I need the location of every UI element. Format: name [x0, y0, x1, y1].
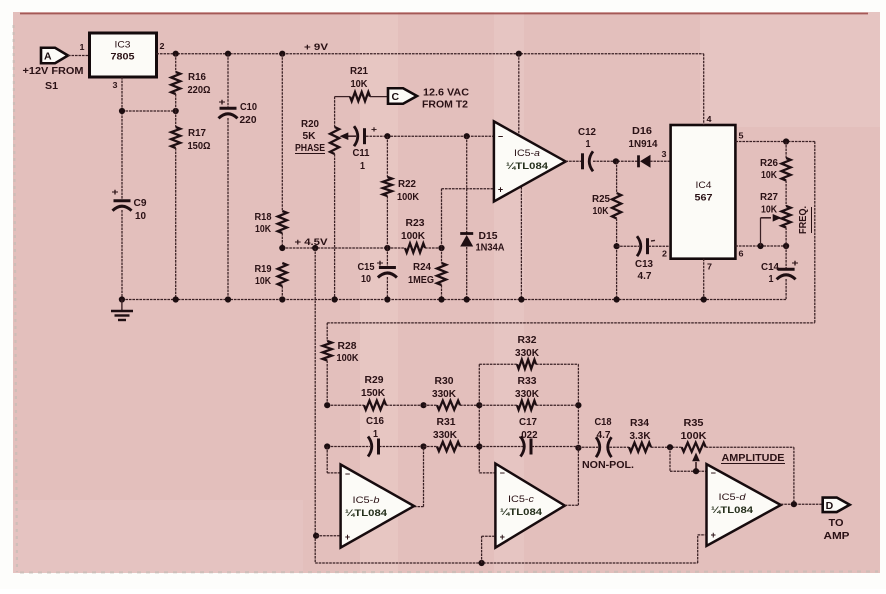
resistor R34 — [629, 443, 651, 452]
svg-text:NON-POL.: NON-POL. — [582, 460, 634, 471]
svg-text:¼TL084: ¼TL084 — [506, 161, 549, 172]
svg-text:+: + — [345, 532, 350, 542]
svg-text:1: 1 — [373, 429, 378, 440]
svg-text:R19: R19 — [255, 264, 272, 275]
svg-text:R33: R33 — [518, 376, 537, 387]
wire R34 junction to IC5-d inverting input — [669, 447, 671, 471]
svg-text:C16: C16 — [366, 416, 384, 427]
svg-text:FROM T2: FROM T2 — [422, 99, 468, 111]
svg-text:1: 1 — [360, 161, 365, 172]
diode D15 1N34A — [466, 136, 468, 233]
wire IC3 pin3 down — [121, 77, 123, 200]
wire lower feedback top rail — [327, 322, 815, 324]
svg-text:10K: 10K — [255, 276, 272, 287]
pin 7 wire — [703, 259, 705, 300]
svg-text:R18: R18 — [255, 212, 272, 223]
node D output arrow TO AMP — [823, 498, 850, 513]
wire bottom noninverting rail — [315, 562, 698, 564]
svg-text:D15: D15 — [479, 231, 498, 242]
svg-text:3.3K: 3.3K — [630, 431, 652, 442]
potentiometer R35 100K AMPLITUDE — [682, 443, 706, 452]
wire C12 to D16 — [593, 160, 638, 162]
wire C11 to IC5-a inverting input — [366, 135, 494, 137]
resistor R32 — [517, 360, 536, 369]
svg-text:+: + — [371, 125, 377, 134]
svg-text:C: C — [391, 91, 399, 103]
resistor R18 — [281, 54, 283, 211]
svg-text:IC5-a: IC5-a — [514, 148, 540, 159]
svg-text:R20: R20 — [301, 119, 319, 130]
svg-text:6: 6 — [739, 249, 744, 259]
wire R29 row — [327, 404, 364, 406]
capacitor C11 — [354, 126, 358, 146]
wire +4.5V drop to bottom rail — [314, 248, 316, 563]
svg-text:IC3: IC3 — [115, 40, 131, 51]
svg-text:S1: S1 — [45, 81, 58, 92]
svg-text:¼TL084: ¼TL084 — [500, 507, 543, 518]
svg-text:2: 2 — [662, 249, 667, 259]
resistor R30 — [424, 404, 438, 406]
inner loop R32 row — [479, 363, 517, 365]
svg-text:C9: C9 — [134, 198, 147, 209]
svg-text:R17: R17 — [188, 128, 206, 139]
svg-text:C15: C15 — [358, 262, 375, 273]
svg-text:R26: R26 — [760, 158, 778, 169]
wire IC5-c output stub — [565, 504, 579, 506]
svg-text:IC4: IC4 — [696, 180, 712, 191]
svg-text:R30: R30 — [435, 376, 454, 387]
svg-text:330K: 330K — [515, 389, 540, 400]
wire link pin3 to R16/R17 junction — [122, 110, 176, 112]
pin 6 wire — [735, 245, 786, 247]
svg-text:567: 567 — [695, 193, 713, 204]
regulator IC3 7805 — [90, 33, 157, 77]
tone decoder IC4 567 — [671, 125, 736, 259]
node A input arrow — [41, 48, 68, 64]
svg-text:+: + — [219, 97, 226, 107]
capacitor C18 NON-POL — [578, 446, 598, 448]
resistor R26 — [785, 142, 787, 159]
svg-text:FREQ.: FREQ. — [798, 206, 809, 234]
svg-text:C10: C10 — [240, 102, 257, 113]
svg-text:100K: 100K — [397, 192, 420, 203]
svg-text:R35: R35 — [684, 418, 704, 429]
svg-text:D16: D16 — [632, 126, 652, 137]
svg-text:1MEG: 1MEG — [408, 275, 434, 286]
svg-text:4.7: 4.7 — [597, 430, 611, 441]
svg-text:+: + — [792, 258, 799, 268]
resistor R17 — [175, 111, 177, 127]
svg-text:¼TL084: ¼TL084 — [711, 505, 754, 516]
wire IC5-d + stub — [697, 535, 699, 563]
svg-text:R29: R29 — [365, 375, 384, 386]
svg-text:C11: C11 — [353, 148, 370, 159]
svg-text:330K: 330K — [515, 348, 540, 359]
wiper arrow of R35 — [695, 462, 697, 471]
svg-text:R31: R31 — [437, 417, 456, 428]
svg-text:10K: 10K — [351, 79, 369, 90]
svg-text:+12V FROM: +12V FROM — [23, 66, 84, 77]
resistor R29 — [364, 401, 386, 410]
svg-text:−: − — [498, 132, 503, 142]
svg-text:100K: 100K — [337, 353, 360, 364]
op-amp IC5-a — [518, 54, 520, 135]
svg-text:TO: TO — [829, 518, 844, 529]
svg-text:4.7: 4.7 — [638, 271, 652, 282]
svg-text:1: 1 — [769, 274, 774, 285]
svg-text:+: + — [500, 532, 505, 542]
wire R35 right to output — [793, 447, 795, 504]
capacitor C14 — [785, 246, 787, 269]
wire +4.5V rail — [282, 247, 405, 249]
svg-text:330K: 330K — [433, 430, 458, 441]
op-amp IC5-b — [341, 465, 414, 548]
svg-text:5: 5 — [739, 131, 744, 141]
wire A to IC3 pin1 — [68, 55, 90, 57]
wiper arrow of R20 — [344, 135, 356, 137]
resistor R31 — [424, 446, 438, 448]
svg-text:10K: 10K — [593, 206, 610, 217]
svg-text:IC5-d: IC5-d — [719, 492, 747, 503]
wire +4.5V node to IC5-a noninverting input — [442, 188, 494, 190]
svg-text:−: − — [500, 468, 505, 478]
potentiometer R20 5K PHASE — [334, 97, 336, 127]
capacitor C13 — [617, 245, 639, 247]
svg-text:AMPLITUDE: AMPLITUDE — [722, 453, 785, 464]
wire IC5-b inverting stub — [326, 447, 328, 473]
svg-text:−: − — [345, 469, 350, 479]
svg-text:IC5-c: IC5-c — [508, 494, 534, 505]
svg-text:C17: C17 — [519, 417, 537, 428]
wire +9V rail — [157, 53, 704, 55]
node +9V junctions — [173, 51, 179, 57]
svg-text:R16: R16 — [188, 72, 206, 83]
pin 4 wire — [703, 54, 705, 125]
svg-text:R21: R21 — [350, 66, 368, 77]
svg-text:C18: C18 — [595, 417, 612, 428]
svg-text:C12: C12 — [578, 127, 596, 138]
diode D16 1N914 — [637, 155, 640, 167]
node C arrow 12.6 VAC FROM T2 — [388, 88, 417, 104]
svg-text:3: 3 — [113, 80, 118, 90]
capacitor C9 — [114, 199, 131, 202]
resistor R23 — [405, 243, 425, 252]
svg-text:+: + — [112, 187, 119, 197]
resistor R16 — [175, 54, 177, 72]
svg-text:+: + — [711, 530, 716, 540]
svg-text:+: + — [377, 258, 384, 268]
ground bus — [122, 299, 786, 301]
svg-text:10K: 10K — [255, 224, 272, 235]
svg-text:150K: 150K — [361, 388, 386, 399]
resistor R22 — [386, 136, 388, 177]
svg-text:.022: .022 — [519, 430, 538, 441]
svg-text:C14: C14 — [761, 262, 779, 273]
svg-text:R25: R25 — [592, 194, 610, 205]
wire right column pin5 down to lower section — [814, 142, 816, 323]
svg-text:R28: R28 — [338, 341, 357, 352]
wire IC5-d output — [781, 503, 823, 505]
wire IC5-a output — [566, 160, 581, 162]
svg-text:7805: 7805 — [111, 52, 136, 63]
svg-text:4: 4 — [707, 114, 712, 124]
svg-text:5K: 5K — [303, 131, 317, 142]
capacitor C16 — [368, 437, 372, 457]
capacitor C10 — [227, 54, 229, 108]
capacitor C15 — [386, 248, 388, 267]
svg-text:PHASE: PHASE — [295, 143, 325, 154]
resistor R25 — [616, 161, 618, 193]
wiper arrow of R27 — [761, 217, 772, 219]
svg-text:R34: R34 — [630, 418, 649, 429]
svg-text:1N34A: 1N34A — [476, 243, 505, 254]
svg-text:R23: R23 — [406, 218, 425, 229]
resistor R19 — [278, 263, 287, 286]
svg-text:R27: R27 — [760, 192, 778, 203]
resistor R24 1MEG — [441, 189, 443, 263]
svg-text:C13: C13 — [635, 259, 653, 270]
wire C16 row — [327, 446, 370, 448]
svg-text:IC5-b: IC5-b — [353, 495, 380, 506]
svg-text:10: 10 — [361, 274, 371, 285]
svg-text:7: 7 — [707, 262, 712, 272]
wire IC5-c + stub — [481, 536, 483, 563]
svg-text:100K: 100K — [401, 231, 426, 242]
svg-text:1: 1 — [586, 139, 591, 150]
capacitor C12 — [581, 153, 584, 169]
svg-text:10: 10 — [135, 211, 146, 222]
svg-text:220Ω: 220Ω — [188, 85, 211, 96]
wire IC5-b output stub — [414, 506, 424, 508]
resistor R33 — [479, 404, 517, 406]
resistor R21 — [335, 96, 350, 98]
svg-text:3: 3 — [662, 149, 667, 159]
wire inner loop verticals — [478, 364, 480, 473]
svg-text:330K: 330K — [432, 389, 457, 400]
svg-text:¼TL084: ¼TL084 — [345, 508, 388, 519]
svg-text:R22: R22 — [398, 179, 416, 190]
op-amp IC5-c — [495, 464, 564, 548]
svg-text:1: 1 — [80, 42, 85, 52]
svg-text:220: 220 — [240, 115, 257, 126]
resistor R28 — [326, 323, 328, 341]
svg-text:D: D — [826, 500, 834, 512]
svg-text:100K: 100K — [681, 431, 708, 442]
svg-text:12.6 VAC: 12.6 VAC — [423, 87, 469, 99]
capacitor C17 — [479, 446, 523, 448]
op-amp IC5-d — [707, 464, 781, 546]
wire IC5-b + stub — [316, 535, 341, 537]
svg-text:10K: 10K — [761, 170, 778, 181]
svg-text:AMP: AMP — [824, 531, 850, 542]
svg-text:150Ω: 150Ω — [188, 141, 211, 152]
svg-text:+ 4.5V: + 4.5V — [295, 237, 329, 248]
svg-text:+: + — [498, 185, 503, 195]
svg-text:10K: 10K — [761, 205, 778, 216]
svg-text:−: − — [711, 468, 716, 478]
svg-text:+ 9V: + 9V — [304, 42, 329, 53]
svg-text:R24: R24 — [413, 262, 431, 273]
ground — [121, 300, 123, 311]
svg-text:1N914: 1N914 — [629, 139, 658, 150]
svg-text:A: A — [44, 51, 52, 63]
svg-text:R32: R32 — [518, 335, 537, 346]
potentiometer R27 10K FREQ — [782, 206, 791, 228]
svg-text:2: 2 — [160, 41, 165, 51]
pin 5 wire — [735, 141, 814, 143]
